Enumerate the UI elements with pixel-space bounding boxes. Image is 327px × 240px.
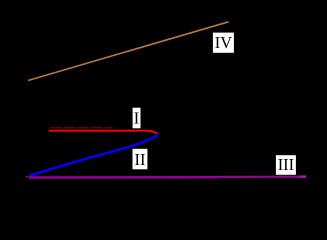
curve II (blue) <box>29 134 157 175</box>
label III <box>276 155 296 175</box>
svg-text:IV: IV <box>215 33 232 52</box>
svg-text:I: I <box>134 109 139 128</box>
svg-text:III: III <box>278 155 294 174</box>
dashed dark-red branch <box>50 127 113 129</box>
curve III (purple) <box>29 176 219 179</box>
curve I (red) <box>49 131 158 135</box>
label IV <box>213 33 234 53</box>
bright cap at right end of curve III <box>300 175 307 178</box>
label II <box>133 149 148 170</box>
svg-text:II: II <box>135 150 146 169</box>
curve IV (brown line) <box>28 22 229 81</box>
label I <box>133 108 141 129</box>
curve III right segment <box>219 176 306 178</box>
magenta tick at left end of curve III <box>26 176 28 178</box>
